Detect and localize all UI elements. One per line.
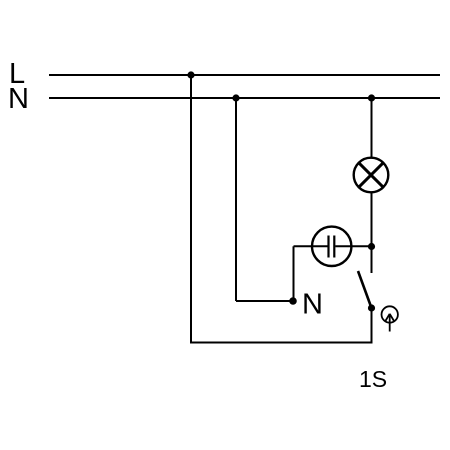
actuator symbol (circle with arrow) bbox=[382, 306, 398, 331]
glow lamp (circle with electrodes) bbox=[312, 227, 351, 266]
junction on N line (left) bbox=[232, 94, 239, 101]
wire: glow lamp right lead to node A bbox=[335, 245, 371, 247]
wire: N drop bbox=[235, 98, 237, 301]
svg-text:1S: 1S bbox=[359, 366, 387, 392]
svg-text:N: N bbox=[302, 289, 323, 321]
glow lamp right electrode bbox=[333, 236, 335, 258]
lamp E1 (circle with X) bbox=[354, 158, 389, 193]
glow lamp left electrode bbox=[327, 236, 329, 258]
switch blade (open) bbox=[358, 271, 372, 308]
junction on N line (right, lamp feed) bbox=[368, 94, 375, 101]
wire: glow lamp lead down to N terminal bbox=[293, 246, 295, 301]
wire: riser to switch moving contact bbox=[371, 308, 373, 344]
wire: switch fixed contact stub bbox=[371, 247, 373, 274]
svg-text:N: N bbox=[8, 83, 29, 115]
wire: L supply line bbox=[49, 74, 440, 76]
wire: N run to terminal bbox=[236, 300, 293, 302]
wire: bottom run to switch bbox=[190, 342, 373, 344]
wire: L drop to bottom bbox=[190, 75, 192, 343]
wire: lamp to N line bbox=[371, 98, 373, 158]
wire: node A up to lamp bbox=[371, 192, 373, 247]
junction on L line bbox=[187, 71, 194, 78]
N terminal dot bbox=[289, 297, 297, 305]
wire: N supply line bbox=[49, 97, 440, 99]
switch moving-contact dot bbox=[368, 304, 375, 311]
wire: glow lamp left lead bbox=[294, 245, 328, 247]
junction at node A (lamp / glow lamp / switch) bbox=[368, 243, 375, 250]
